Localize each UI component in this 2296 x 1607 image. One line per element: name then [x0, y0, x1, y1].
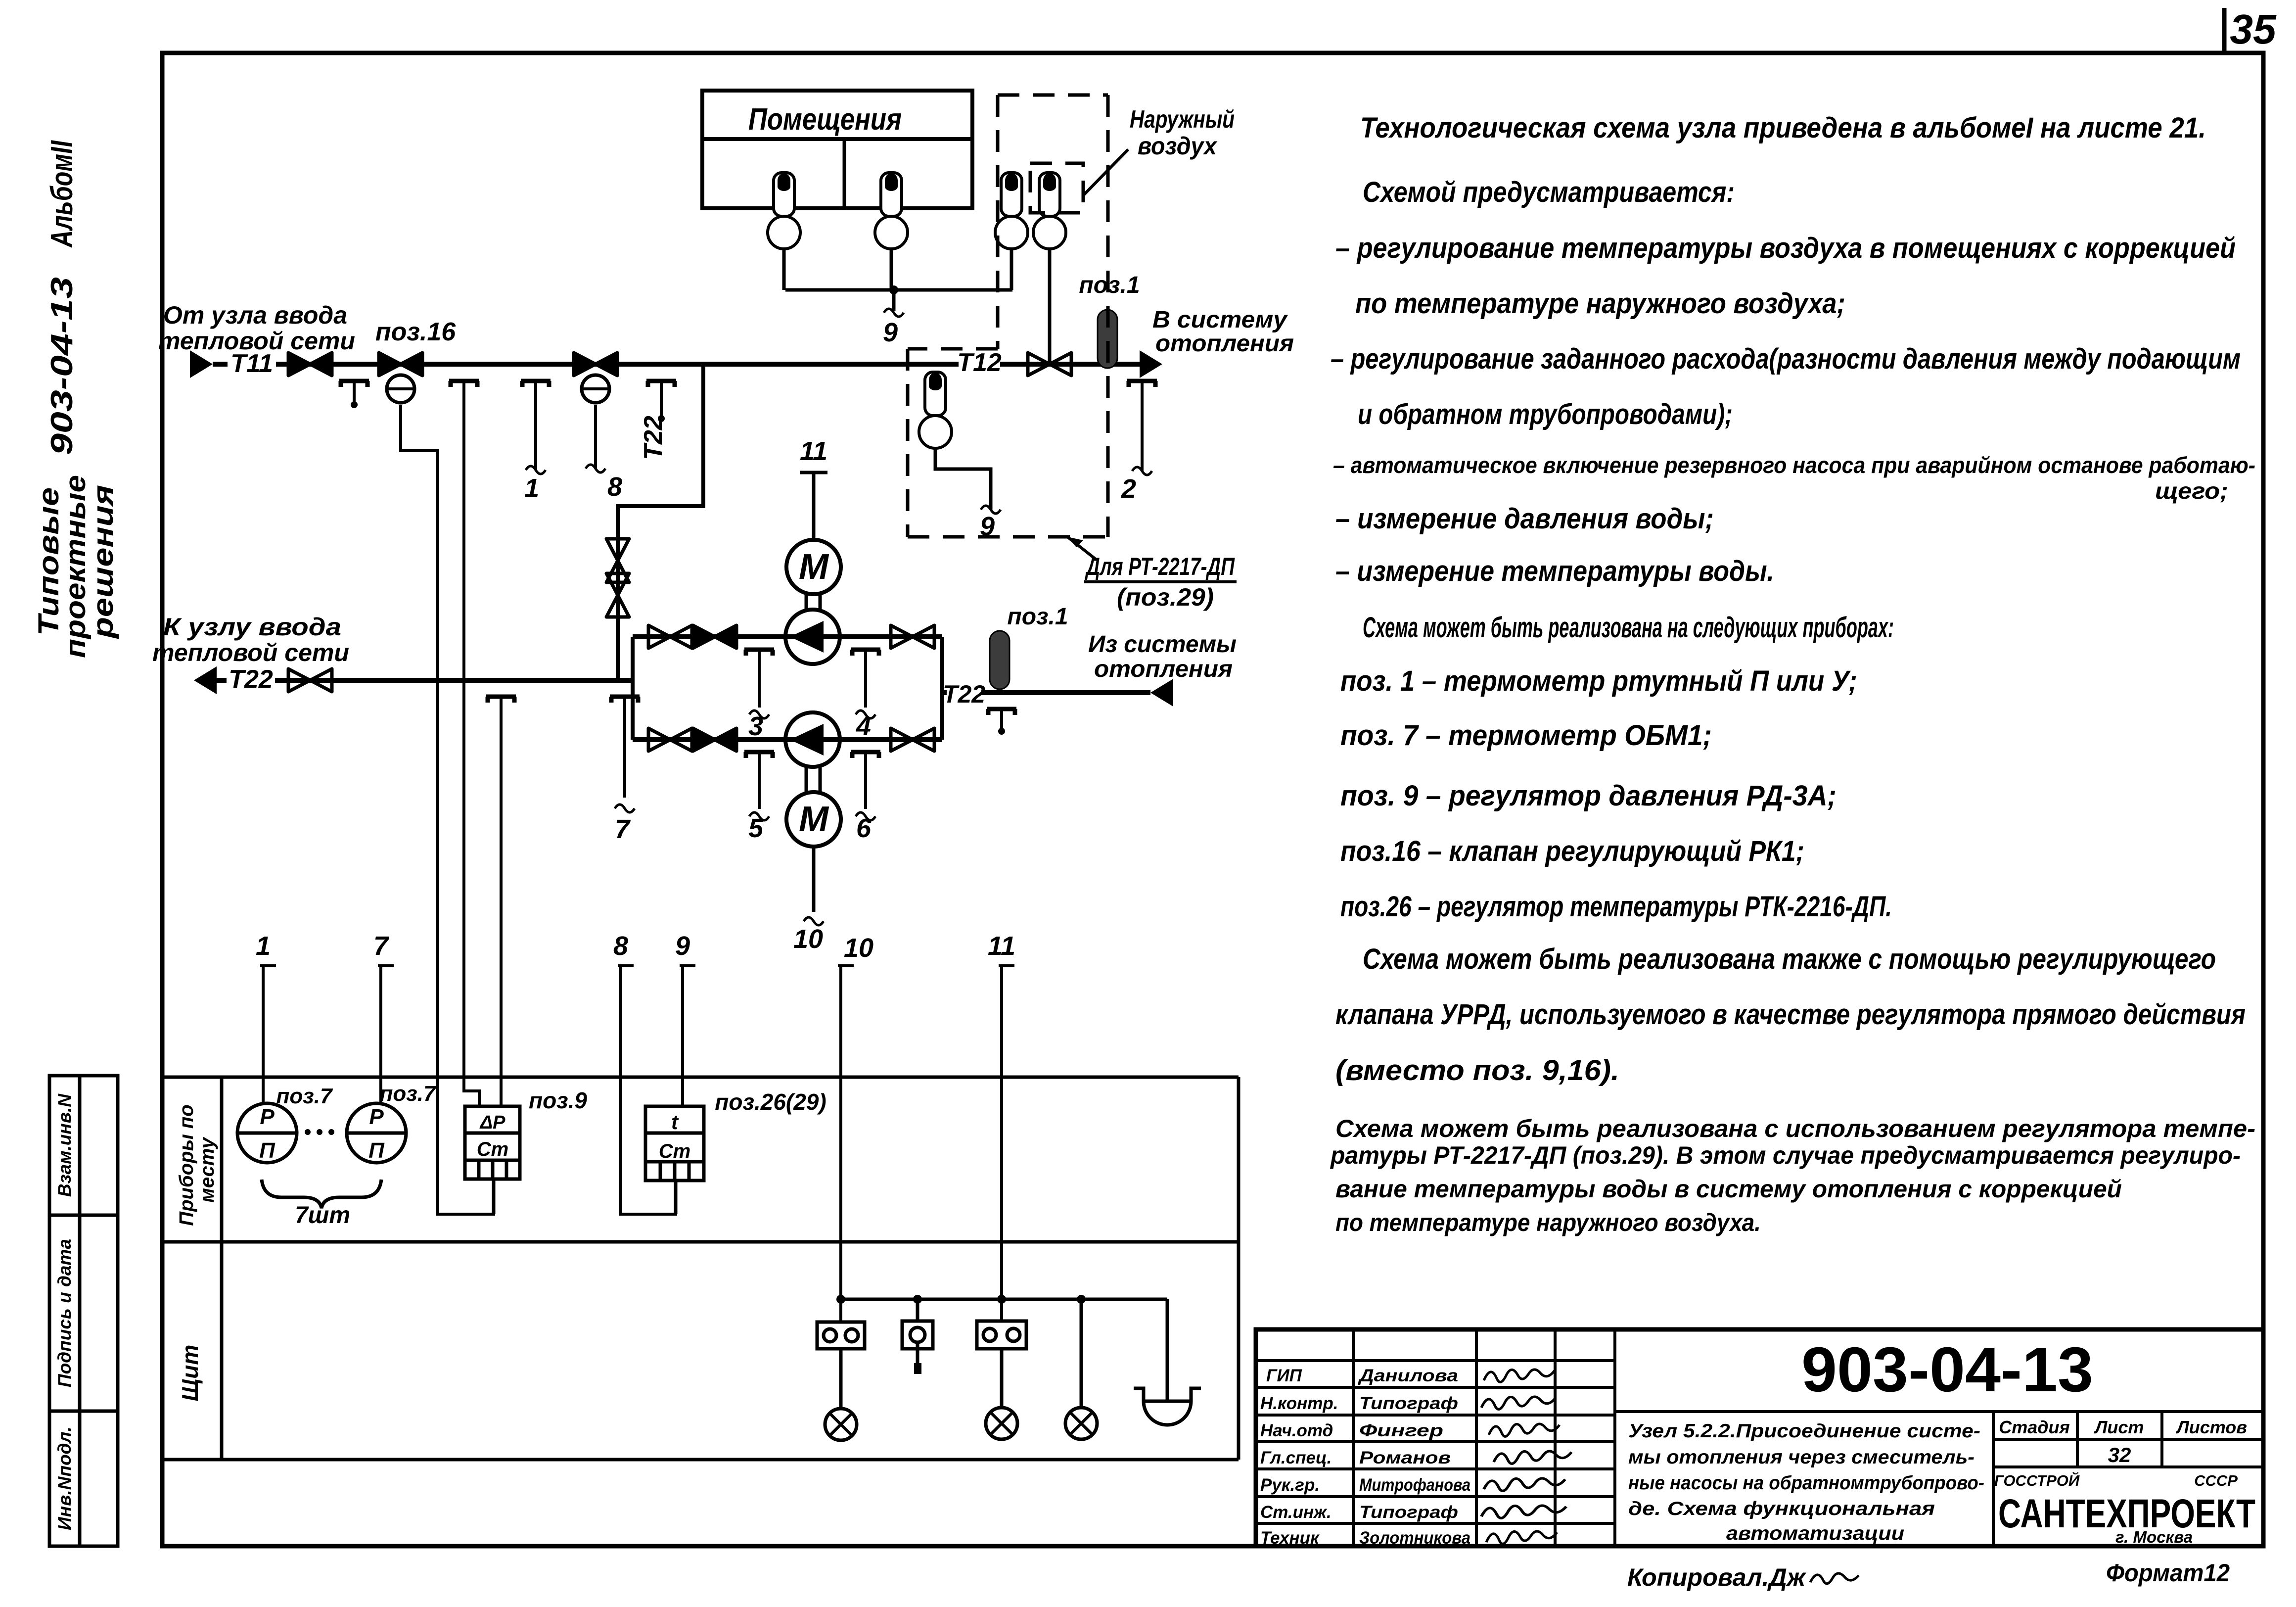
- svg-text:Формат12: Формат12: [2106, 1559, 2230, 1587]
- svg-text:Копировал.Дж: Копировал.Дж: [1627, 1563, 1806, 1591]
- svg-text:Схема может быть реализована с: Схема может быть реализована с использов…: [1335, 1115, 2255, 1142]
- svg-text:щего;: щего;: [2155, 478, 2228, 504]
- svg-text:Стадия: Стадия: [1999, 1417, 2069, 1437]
- svg-text:Нач.отд: Нач.отд: [1260, 1421, 1333, 1440]
- svg-text:поз.16: поз.16: [375, 318, 456, 346]
- svg-text:Романов: Романов: [1359, 1448, 1451, 1467]
- svg-text:ратуры РТ-2217-ДП (поз.29). В: ратуры РТ-2217-ДП (поз.29). В этом случа…: [1330, 1141, 2241, 1169]
- svg-text:по температуре наружного возду: по температуре наружного воздуха.: [1335, 1209, 1761, 1236]
- svg-text:Золотникова: Золотникова: [1359, 1528, 1470, 1548]
- svg-text:– измерение давления воды;: – измерение давления воды;: [1335, 503, 1714, 535]
- svg-text:воздух: воздух: [1138, 132, 1218, 160]
- svg-text:7: 7: [373, 931, 390, 961]
- svg-text:мы отопления через смеситель-: мы отопления через смеситель-: [1628, 1447, 1975, 1468]
- svg-text:8: 8: [613, 931, 628, 961]
- svg-text:Инв.Nподл.: Инв.Nподл.: [54, 1426, 75, 1530]
- svg-text:Подпись и дата: Подпись и дата: [54, 1239, 75, 1387]
- svg-text:32: 32: [2108, 1443, 2131, 1466]
- svg-text:Из системы: Из системы: [1088, 631, 1237, 658]
- svg-text:7: 7: [615, 814, 631, 844]
- svg-text:Р: Р: [260, 1105, 275, 1129]
- svg-text:решения: решения: [87, 485, 119, 639]
- svg-text:Лист: Лист: [2094, 1417, 2144, 1437]
- svg-text:Узел 5.2.2.Присоединение систе: Узел 5.2.2.Присоединение систе-: [1628, 1420, 1980, 1442]
- svg-text:903-04-13: 903-04-13: [45, 277, 79, 455]
- svg-text:Т22: Т22: [229, 665, 273, 694]
- svg-text:Ст: Ст: [477, 1138, 508, 1160]
- svg-text:месту: месту: [196, 1137, 218, 1203]
- svg-text:поз. 9 – регулятор давления РД: поз. 9 – регулятор давления РД-3А;: [1340, 780, 1837, 812]
- svg-text:(поз.29): (поз.29): [1117, 583, 1214, 611]
- svg-text:Т22: Т22: [943, 680, 985, 708]
- svg-text:К узлу ввода: К узлу ввода: [163, 613, 341, 641]
- svg-text:– регулирование температуры во: – регулирование температуры воздуха в по…: [1335, 232, 2236, 264]
- svg-text:Технологическая схема узла при: Технологическая схема узла приведена в а…: [1360, 112, 2206, 144]
- svg-text:поз.26(29): поз.26(29): [715, 1089, 826, 1115]
- svg-text:АльбомІІ: АльбомІІ: [45, 140, 79, 248]
- svg-text:Приборы по: Приборы по: [176, 1104, 197, 1226]
- svg-text:Т12: Т12: [957, 348, 1002, 377]
- svg-text:поз. 1 – термометр ртутный П и: поз. 1 – термометр ртутный П или У;: [1340, 665, 1857, 697]
- svg-text:поз.1: поз.1: [1007, 604, 1068, 630]
- svg-text:поз.7: поз.7: [276, 1084, 333, 1108]
- svg-text:6: 6: [856, 813, 872, 843]
- svg-text:t: t: [671, 1110, 679, 1134]
- svg-text:35: 35: [2230, 6, 2277, 52]
- svg-text:Техник: Техник: [1260, 1528, 1320, 1548]
- svg-text:8: 8: [607, 472, 622, 502]
- svg-text:де. Схема функциональная: де. Схема функциональная: [1628, 1498, 1935, 1519]
- svg-text:Взам.инв.N: Взам.инв.N: [54, 1093, 75, 1197]
- svg-text:Фингер: Фингер: [1359, 1421, 1443, 1440]
- svg-text:Ст.инж.: Ст.инж.: [1260, 1503, 1332, 1522]
- svg-text:– регулирование заданного расх: – регулирование заданного расхода(разнос…: [1331, 343, 2241, 375]
- svg-text:(вместо поз. 9,16).: (вместо поз. 9,16).: [1335, 1054, 1619, 1087]
- svg-text:Н.контр.: Н.контр.: [1260, 1394, 1338, 1413]
- svg-text:СССР: СССР: [2194, 1472, 2238, 1489]
- svg-text:вание температуры воды в систе: вание температуры воды в систему отоплен…: [1335, 1175, 2122, 1203]
- svg-text:Ст: Ст: [659, 1140, 690, 1162]
- svg-text:903-04-13: 903-04-13: [1801, 1334, 2093, 1405]
- svg-text:11: 11: [800, 436, 827, 466]
- svg-text:Щит: Щит: [177, 1345, 203, 1401]
- svg-text:ГИП: ГИП: [1266, 1366, 1302, 1385]
- svg-text:Для РТ-2217-ДП: Для РТ-2217-ДП: [1085, 553, 1235, 580]
- svg-text:7шт: 7шт: [295, 1202, 350, 1229]
- svg-text:Митрофанова: Митрофанова: [1359, 1475, 1470, 1495]
- svg-text:по температуре наружного возду: по температуре наружного воздуха;: [1355, 287, 1845, 320]
- svg-text:Схема может быть реализована н: Схема может быть реализована на следующи…: [1363, 612, 1894, 644]
- svg-text:поз.16 – клапан регулирующий Р: поз.16 – клапан регулирующий РК1;: [1340, 835, 1804, 867]
- svg-text:Помещения: Помещения: [748, 102, 902, 137]
- svg-text:9: 9: [675, 931, 690, 961]
- svg-text:П: П: [259, 1138, 276, 1163]
- svg-text:4: 4: [856, 711, 871, 741]
- svg-text:Т22: Т22: [639, 416, 668, 460]
- svg-text:Наружный: Наружный: [1130, 105, 1235, 133]
- svg-text:11: 11: [988, 931, 1015, 961]
- svg-text:поз.7: поз.7: [380, 1082, 437, 1106]
- svg-text:Схемой предусматривается:: Схемой предусматривается:: [1363, 176, 1735, 208]
- svg-text:Данилова: Данилова: [1357, 1366, 1458, 1385]
- svg-text:Листов: Листов: [2175, 1417, 2247, 1437]
- svg-text:– измерение температуры воды.: – измерение температуры воды.: [1335, 555, 1774, 587]
- svg-text:Р: Р: [369, 1105, 384, 1129]
- svg-text:Гл.спец.: Гл.спец.: [1260, 1448, 1332, 1467]
- svg-text:клапана УРРД, используемого в: клапана УРРД, используемого в качестве р…: [1335, 998, 2246, 1031]
- svg-text:поз.26 – регулятор температуры: поз.26 – регулятор температуры РТК-2216-…: [1340, 891, 1892, 923]
- svg-text:Рук.гр.: Рук.гр.: [1260, 1475, 1320, 1495]
- svg-text:3: 3: [748, 711, 763, 741]
- svg-text:В систему: В систему: [1152, 307, 1288, 333]
- svg-text:10: 10: [793, 924, 823, 954]
- svg-text:тепловой сети: тепловой сети: [158, 327, 355, 355]
- svg-text:поз.9: поз.9: [529, 1087, 587, 1113]
- svg-text:ные насосы на обратномтрубопро: ные насосы на обратномтрубопрово-: [1628, 1472, 1984, 1494]
- svg-text:От узла ввода: От узла ввода: [163, 301, 347, 329]
- svg-text:ΔР: ΔР: [479, 1112, 506, 1133]
- svg-text:5: 5: [748, 813, 764, 843]
- svg-text:автоматизации: автоматизации: [1726, 1523, 1904, 1544]
- svg-text:отопления: отопления: [1094, 656, 1233, 682]
- svg-text:и обратном трубопроводами);: и обратном трубопроводами);: [1358, 398, 1733, 430]
- svg-text:1: 1: [524, 473, 539, 503]
- svg-text:тепловой сети: тепловой сети: [152, 639, 349, 666]
- svg-text:2: 2: [1121, 474, 1136, 504]
- svg-text:1: 1: [256, 931, 271, 961]
- svg-text:Типограф: Типограф: [1359, 1503, 1458, 1522]
- svg-text:ГОССТРОЙ: ГОССТРОЙ: [1994, 1471, 2080, 1489]
- svg-text:9: 9: [883, 318, 898, 347]
- svg-text:Схема может быть реализована т: Схема может быть реализована также с пом…: [1363, 943, 2216, 975]
- svg-text:САНТЕХПРОЕКТ: САНТЕХПРОЕКТ: [1998, 1491, 2255, 1536]
- svg-text:Типограф: Типограф: [1359, 1394, 1458, 1413]
- svg-text:отопления: отопления: [1155, 331, 1294, 357]
- svg-text:П: П: [368, 1138, 385, 1163]
- svg-text:10: 10: [844, 933, 873, 963]
- svg-text:поз. 7 – термометр ОБМ1;: поз. 7 – термометр ОБМ1;: [1340, 719, 1712, 752]
- svg-text:– автоматическое включение рез: – автоматическое включение резервного на…: [1333, 452, 2255, 478]
